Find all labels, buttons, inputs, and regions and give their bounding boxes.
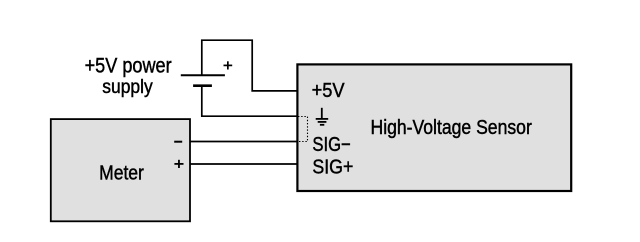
battery B1 positive plate	[181, 74, 225, 76]
meter terminal +	[174, 160, 183, 168]
svg-text:+5V power: +5V power	[85, 53, 172, 77]
high-voltage sensor box	[297, 64, 571, 191]
wire battery - to sensor ground entry	[202, 86, 298, 117]
svg-text:SIG−: SIG−	[312, 134, 350, 156]
battery B1 negative plate	[193, 84, 212, 87]
dotted internal link ground to SIG-	[298, 117, 308, 142]
svg-text:+5V: +5V	[312, 80, 345, 102]
label +5V power supply	[85, 53, 172, 97]
svg-text:SIG+: SIG+	[312, 156, 353, 178]
svg-text:Meter: Meter	[99, 163, 144, 185]
meter terminal -	[174, 141, 182, 143]
ground symbol	[316, 108, 329, 125]
wire battery + to sensor +5V pin	[202, 40, 298, 91]
meter box	[51, 119, 190, 221]
svg-text:High-Voltage Sensor: High-Voltage Sensor	[371, 117, 533, 139]
svg-text:supply: supply	[102, 77, 153, 98]
wire meter - to sensor SIG-	[190, 141, 297, 143]
wire meter + to sensor SIG+	[190, 163, 297, 165]
battery polarity +	[224, 61, 233, 69]
